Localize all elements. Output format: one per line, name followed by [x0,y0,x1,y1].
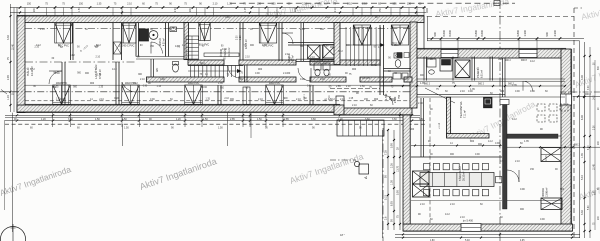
svg-text:0.90: 0.90 [475,153,480,156]
window axis line [12,91,410,93]
svg-text:1.35: 1.35 [524,140,529,143]
svg-text:3.60: 3.60 [392,118,397,121]
leader diagonal [425,88,455,103]
svg-text:100/2 PVC: 100/2 PVC [269,82,281,85]
lower dim line dashed [5,123,425,125]
svg-text:PIHENŐ: PIHENŐ [475,66,480,78]
svg-text:2.10: 2.10 [285,53,290,56]
svg-text:1.35: 1.35 [322,63,327,66]
svg-text:12.05 m²: 12.05 m² [245,39,248,49]
svg-text:150: 150 [364,98,369,101]
door D1 arc [49,71,62,84]
teakonyha wall horizontal hatched [447,134,490,138]
staircase main run treads [190,66,192,78]
svg-text:1.50: 1.50 [79,7,81,12]
svg-text:5.10: 5.10 [385,195,388,200]
room floor line [25,103,340,105]
svg-text:2.20: 2.20 [237,35,239,40]
top window W8 [122,23,136,43]
svg-text:2.10: 2.10 [335,7,337,12]
svg-text:10.40: 10.40 [13,44,15,50]
ground line below [5,114,420,116]
left dim vertical 2 [13,8,15,113]
svg-text:0.90: 0.90 [114,98,119,100]
dashed furniture [537,104,545,111]
svg-text:900: 900 [346,45,351,47]
door D4 arc [282,33,293,44]
stair wall hatched [184,23,189,60]
radiator X box left [413,171,430,184]
svg-text:14.2: 14.2 [594,95,596,100]
svg-text:0.90: 0.90 [255,72,260,75]
svg-text:2.10: 2.10 [119,46,124,48]
lower dim line 1 [5,120,425,122]
svg-text:1.50: 1.50 [218,127,223,130]
svg-text:2.50 m²: 2.50 m² [292,55,295,63]
svg-text:150: 150 [27,3,32,6]
svg-text:3.00: 3.00 [581,75,584,80]
benchmark circle [1,227,26,241]
svg-text:14.2: 14.2 [530,60,535,63]
exterior steps [337,120,384,136]
svg-text:5.40: 5.40 [581,175,584,180]
svg-text:900: 900 [320,28,325,31]
svg-text:2.10: 2.10 [394,45,399,47]
svg-text:1.50: 1.50 [124,127,129,130]
stove circle [149,31,158,40]
partition RW1 [471,57,473,81]
bottom window W3 [185,85,203,105]
svg-text:2.10: 2.10 [310,57,315,59]
svg-text:1.35: 1.35 [349,98,354,100]
right wing left wall [403,115,410,224]
svg-text:1.35: 1.35 [262,44,267,47]
door D6 arc [228,66,240,78]
right wing top wall [417,49,566,58]
door D2 arc [122,82,137,92]
svg-text:2.10: 2.10 [127,3,132,6]
door D3 arc [151,42,163,54]
svg-text:900: 900 [410,128,415,131]
left wing left wall [17,16,25,113]
svg-text:1.35: 1.35 [97,3,102,6]
grid label box [494,1,500,6]
parapet dashed line [25,100,410,102]
svg-text:900: 900 [478,143,483,146]
svg-text:2.10: 2.10 [346,86,351,88]
svg-text:100/2 PVC: 100/2 PVC [188,82,200,85]
svg-text:0.90: 0.90 [222,48,227,51]
svg-text:0.90: 0.90 [540,218,545,221]
svg-text:7.28: 7.28 [385,150,388,155]
dark wall horizontal [507,134,558,138]
radiator X box iroda 1 [541,148,561,162]
wc room walls [150,59,152,77]
teakonyha wall vertical hatched [447,97,451,136]
staircase 2 treads [345,27,347,66]
teakonyha bottom line [411,147,502,149]
toilet [173,64,179,72]
corridor axis right ext [560,91,600,93]
small fixture at wall [336,96,344,106]
svg-text:1.35: 1.35 [99,87,104,89]
iroda door arc [507,170,519,182]
svg-text:2.10: 2.10 [258,98,263,101]
svg-text:5.90: 5.90 [397,190,400,195]
svg-text:2.10: 2.10 [352,104,357,107]
top window axis line [25,28,410,30]
svg-text:900: 900 [545,32,549,37]
svg-text:6.00: 6.00 [581,115,584,120]
right wing eaves line [427,40,580,42]
right wing right wall outer face [571,49,573,231]
svg-text:14.2: 14.2 [512,118,517,121]
svg-text:14.2: 14.2 [112,68,117,71]
staircase upper flight treads [186,36,199,60]
teakonyha west partition [420,98,422,157]
wc stall 1 [314,63,321,70]
svg-text:2.90: 2.90 [7,75,10,80]
room door arc right [523,81,533,91]
svg-text:900: 900 [352,68,357,71]
top dimension line 1 [10,7,426,9]
svg-text:7.11 m²: 7.11 m² [464,110,467,118]
partition wall P3 [115,62,117,105]
svg-text:×: × [80,49,82,53]
svg-text:0.800: 0.800 [474,29,478,36]
svg-text:900: 900 [372,64,377,67]
svg-text:3.60: 3.60 [365,118,370,121]
right wing top dim line [427,38,584,40]
svg-text:900: 900 [250,44,255,47]
svg-text:1.00: 1.00 [391,180,394,185]
bathroom east wall [165,23,167,57]
sink [170,27,177,32]
svg-text:6.51 m²: 6.51 m² [481,70,484,78]
svg-text:900 2: 900 2 [505,60,511,62]
junction dark fixtures [397,53,402,58]
svg-text:0.90: 0.90 [225,16,230,19]
svg-text:60.2: 60.2 [338,50,343,53]
svg-text:13.70: 13.70 [397,165,400,172]
dark wall horizontal ext [558,135,561,137]
svg-text:60.2: 60.2 [30,68,35,71]
grid line x383 [382,128,384,241]
teakonyha dashed line [429,98,431,223]
svg-text:60.2: 60.2 [330,98,335,101]
corridor south wall hatched [147,77,225,82]
stair2 right wall [379,25,381,95]
bottom window W4 [266,85,284,105]
wc fixture 3 [393,73,401,79]
partition RW0 [423,57,425,81]
svg-text:14.2: 14.2 [445,213,450,216]
corridor dim right ext [573,96,600,98]
corridor north wall hatched [188,60,224,65]
svg-text:900: 900 [230,98,235,101]
svg-text:0.90: 0.90 [500,160,505,163]
svg-text:2.10: 2.10 [224,98,229,100]
svg-text:150: 150 [79,3,84,6]
svg-text:1.20: 1.20 [41,118,46,121]
basin circle [427,59,436,67]
svg-text:1.500: 1.500 [385,93,388,100]
svg-text:2.20: 2.20 [175,7,177,12]
axis line left part [25,61,136,63]
right wing bottom wall [403,224,573,231]
svg-text:10.45: 10.45 [594,164,596,170]
svg-text:1.50: 1.50 [203,118,208,121]
bottom door mark [243,87,250,105]
svg-text:3.30: 3.30 [581,210,584,215]
svg-text:5.40: 5.40 [588,205,590,210]
svg-text:1.35: 1.35 [54,87,59,89]
shaft X box 1 [307,45,320,59]
boiler dark square [139,29,149,41]
svg-text:60.2: 60.2 [200,62,205,65]
top window W9 [199,23,211,41]
lower dim ticks [16,114,18,116]
svg-text:2.26: 2.26 [391,163,394,168]
svg-text:2.10: 2.10 [213,3,218,6]
svg-text:2.10: 2.10 [418,102,423,105]
teakonyha dark fixture [484,97,493,108]
svg-text:2.10: 2.10 [99,99,104,101]
rw top window 2 [519,50,537,58]
svg-text:1.35: 1.35 [56,98,61,100]
wc stall 2 [323,63,330,70]
left wing top wall [17,16,424,23]
svg-text:2.10: 2.10 [40,28,45,31]
svg-text:2.26: 2.26 [594,125,596,130]
svg-text:2.10: 2.10 [34,47,39,49]
bottom window W1 [53,85,71,105]
elevator X box [455,60,470,78]
svg-text:900: 900 [258,68,263,71]
svg-text:2.10: 2.10 [300,28,305,31]
rw right dim lines [584,42,586,238]
svg-text:900: 900 [433,32,437,37]
rw right dim ticks [584,55,586,57]
stair wall P4 [239,23,241,60]
svg-text:0.90: 0.90 [530,90,535,93]
bottom window W2 [122,85,140,105]
svg-text:0.90: 0.90 [391,99,396,101]
svg-text:900: 900 [374,98,379,101]
right wing right wall [561,49,571,231]
svg-text:1.50: 1.50 [360,85,365,88]
svg-text:2.10: 2.10 [340,98,345,101]
svg-text:0.90: 0.90 [300,78,305,81]
site boundary dashed [230,2,515,4]
svg-text:9.800: 9.800 [516,29,520,36]
svg-text:2.85: 2.85 [284,118,289,121]
left wing right end wall [410,22,417,108]
svg-text:2.10: 2.10 [420,203,425,206]
section axis line [330,159,356,161]
svg-text:4.300: 4.300 [553,29,557,36]
staircase main run rails [188,65,243,67]
svg-text:jm 5.400: jm 5.400 [462,219,474,223]
rw left dim lines [382,130,384,238]
left wing bottom wall right part [340,108,412,115]
right wing bottom wall outer face [403,230,573,232]
top window W12 [391,25,409,45]
partition RW0b [452,57,454,81]
svg-text:1.300: 1.300 [523,29,527,36]
svg-text:WC: WC [156,68,159,72]
svg-text:1.35: 1.35 [594,190,596,195]
svg-text:0.90: 0.90 [515,90,520,93]
svg-text:IRODA: IRODA [541,188,545,197]
conference table [420,173,494,187]
svg-text:750: 750 [398,94,401,99]
svg-text:2.10: 2.10 [95,57,100,59]
cluster south wall [296,58,340,60]
svg-text:900: 900 [560,188,565,191]
svg-text:2.10: 2.10 [450,203,455,206]
svg-text:TEAKONYHA: TEAKONYHA [459,101,463,118]
svg-text:0.90: 0.90 [307,86,312,88]
iroda mid line [507,200,561,202]
roof dashed stub [426,8,428,17]
bottom band partition 1 [217,85,219,105]
svg-text:2.10: 2.10 [460,90,465,93]
cluster wall C [319,45,321,61]
laundry west wall [135,23,137,57]
svg-text:0.90: 0.90 [150,98,155,101]
svg-text:2.10: 2.10 [97,74,102,76]
fixture dark rect 2 [440,58,452,71]
svg-text:900: 900 [420,74,425,77]
roof dashed top [427,16,574,18]
cluster wall B [300,23,302,61]
svg-text:0.90: 0.90 [202,87,207,89]
svg-text:1.35: 1.35 [205,98,210,100]
long extension x251 [250,113,252,138]
wc fixture 2 [395,60,401,68]
grid line x500 [499,0,501,241]
partition wall P5 [278,23,280,61]
left wing NE corner connector [423,15,425,49]
conf dim line [411,145,502,147]
rw top window 1 [441,50,458,58]
conference chairs [424,164,430,170]
shaft X box 2 [323,45,337,59]
wc fixture 1 [394,53,402,58]
left edge tick [0,91,11,93]
svg-text:1.50: 1.50 [257,118,262,121]
cluster wall A [288,42,340,44]
svg-text:2.10: 2.10 [325,16,330,19]
svg-text:1.35: 1.35 [218,82,223,85]
right wing top wall outer face [417,47,566,49]
partition RW3 [502,58,504,97]
svg-text:3.60: 3.60 [311,118,316,121]
window extension lines below wall [52,113,54,127]
partition wall P2 [70,23,72,60]
svg-text:18 °: 18 ° [340,233,345,237]
dark wall vertical [503,104,508,209]
svg-text:14.2: 14.2 [133,82,138,85]
svg-text:2.85: 2.85 [230,118,235,121]
svg-text:+1.12: +1.12 [438,122,441,129]
svg-text:28.10 m²: 28.10 m² [463,171,466,181]
svg-text:1.35: 1.35 [512,84,517,87]
svg-text:A: A [363,176,368,179]
svg-text:900: 900 [520,208,525,211]
dark wall cap [500,100,509,105]
svg-text:0.90: 0.90 [143,86,148,88]
svg-text:0.90: 0.90 [94,46,99,48]
svg-text:2.10: 2.10 [460,216,465,219]
bottom band partition 2 [309,85,311,105]
svg-text:16.01 m²: 16.01 m² [228,47,231,57]
svg-text:6.600: 6.600 [448,29,452,36]
section marker A [354,161,359,166]
left wing top wall outer face [17,14,424,16]
svg-text:13.86 m²: 13.86 m² [546,187,549,197]
laundry bottom wall [136,56,184,58]
svg-text:0.90: 0.90 [160,78,165,81]
long extension x227 [227,113,229,146]
rw dim stubs [440,39,442,50]
dimension extension stubs [46,8,48,16]
door D7 arc [384,95,394,105]
svg-text:14.2: 14.2 [488,140,493,143]
svg-text:1.35: 1.35 [420,82,425,85]
conference room lower line [411,200,502,202]
left dim vticks [10,15,12,17]
rw bottom dim line [395,233,580,235]
left edge vertical line [4,120,6,210]
rw bottom door [461,224,481,232]
shaft column [112,23,114,60]
svg-text:6.00: 6.00 [588,145,590,150]
left wing bottom wall [17,105,340,112]
bottom wall step connector [334,105,344,115]
upper strip floor line [417,78,565,80]
svg-text:1.20: 1.20 [176,118,181,121]
svg-text:2.85: 2.85 [336,85,341,88]
svg-text:0.90: 0.90 [498,58,503,61]
corridor dim line [380,85,565,87]
svg-text:900 2: 900 2 [478,83,485,86]
svg-text:MOSÓ: MOSÓ [159,38,162,46]
partition wall P1 [61,62,63,105]
svg-text:1.50: 1.50 [95,118,100,121]
upper strip room line [417,94,505,96]
svg-text:0.90: 0.90 [520,188,525,191]
staircase upper rail [191,36,193,60]
svg-text:900: 900 [500,90,505,93]
svg-text:6.600: 6.600 [442,29,446,36]
svg-text:900 2: 900 2 [424,83,431,86]
svg-text:3.00: 3.00 [588,85,590,90]
right wing eaves corner vertical [579,41,581,238]
svg-text:2.10: 2.10 [296,98,301,101]
svg-text:1.35: 1.35 [245,7,247,12]
svg-text:5.90: 5.90 [391,143,394,148]
svg-text:1.35: 1.35 [157,86,162,88]
svg-text:LAKÓTÉR: LAKÓTÉR [93,64,98,79]
parapet lintel line [25,84,410,86]
svg-text:0.90: 0.90 [60,98,65,101]
low counter [204,53,239,56]
svg-text:90 C PVC: 90 C PVC [124,45,135,48]
svg-text:1.20: 1.20 [7,95,10,100]
svg-text:900 2: 900 2 [574,145,580,147]
